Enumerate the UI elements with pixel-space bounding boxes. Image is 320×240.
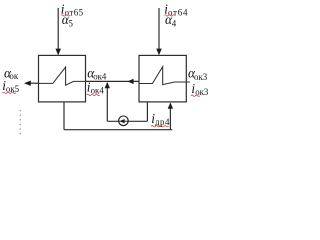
wire: riser from dr4 branch up to link line [106, 83, 108, 121]
wire: drop from U5 bottom [63, 102, 65, 130]
wire: dr4 branch horizontal through current source [107, 120, 147, 122]
arrowhead output left (i_ok5) [24, 81, 31, 86]
wire: bottom bus [64, 129, 172, 131]
svg-text:ок4: ок4 [93, 72, 107, 82]
wire: control input alpha4 into U4 top [158, 8, 160, 50]
dotted guide line (faint) bottom-left [20, 110, 22, 135]
svg-text:4: 4 [172, 18, 177, 28]
wire: riser from bottom bus into U4 bottom [169, 108, 171, 130]
svg-text:ок: ок [9, 71, 18, 81]
arrowhead into U5 top [55, 49, 61, 56]
wire: drop from U4 bottom to dr4 branch [146, 102, 148, 121]
wire: link U4 -> U5 (alpha_ok4 / i_ok4) [86, 80, 140, 82]
arrowhead into U4 top [156, 49, 162, 56]
converter block U4 (right box) [139, 55, 186, 102]
arrowhead up on dr4 riser [105, 82, 110, 88]
svg-text:ок3: ок3 [194, 72, 208, 82]
converter block U5 (left box) [39, 55, 86, 102]
current source circle i_dr4 [119, 116, 129, 126]
arrowhead on U4->U5 link pointing left [127, 79, 133, 84]
wire: control input alpha5 into U5 top [57, 8, 59, 50]
nonlinear characteristic inside U5 [39, 67, 86, 85]
svg-text:5: 5 [69, 18, 74, 28]
arrowhead up into U4 bottom [168, 102, 173, 108]
nonlinear characteristic inside U4 [139, 67, 190, 85]
wire: output arrow left of U5 (alpha_ok / i_ok5) [30, 82, 39, 84]
spellcheck squiggles [3, 15, 200, 127]
